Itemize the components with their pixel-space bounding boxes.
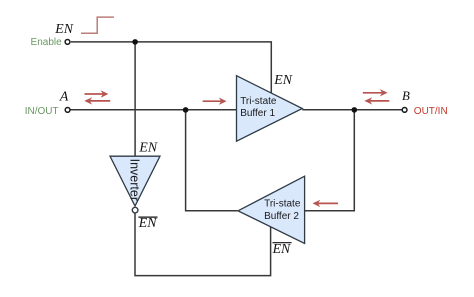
wire inverter output down, right, up to Buffer2 enable pin [135, 213, 271, 275]
label EN-bar (buffer 2 enable) [272, 241, 292, 256]
svg-text:Buffer 2: Buffer 2 [264, 211, 299, 222]
junction Enable/inverter branch [132, 39, 138, 45]
terminal A (IN/OUT) [65, 108, 70, 113]
terminal Enable [65, 40, 70, 45]
svg-text:EN: EN [138, 139, 157, 154]
inverter U3 [110, 156, 160, 206]
terminal B (OUT/IN) [402, 108, 407, 113]
wire Buffer1 output to B [302, 109, 402, 111]
svg-text:Buffer 1: Buffer 1 [240, 108, 275, 119]
wire Enable branch down to inverter input [134, 42, 136, 156]
arrow left (into Buffer2) [313, 200, 339, 207]
signal step waveform [81, 17, 114, 33]
label EN-bar (inverter output) [138, 215, 158, 230]
wire node B branch down and left to Buffer2 input [305, 110, 355, 211]
wire A to Buffer1 input [70, 109, 237, 111]
svg-text:EN: EN [273, 72, 292, 87]
arrow right (into Buffer1) [203, 98, 227, 105]
arrow left (B pair) [364, 97, 389, 104]
tri-state buffer U2 [238, 176, 305, 243]
svg-text:EN: EN [54, 21, 73, 36]
label Tri-state Buffer 1 [240, 96, 277, 119]
label Tri-state Buffer 2 [264, 198, 301, 222]
svg-text:B: B [402, 89, 410, 103]
inverter output bubble [132, 207, 138, 213]
svg-text:IN/OUT: IN/OUT [25, 106, 59, 117]
svg-text:OUT/IN: OUT/IN [414, 106, 448, 117]
arrow right (B pair) [363, 89, 388, 96]
junction A/Buffer2-output branch [183, 107, 189, 113]
junction B/Buffer2-input branch [352, 107, 358, 113]
arrow right (A pair) [85, 90, 109, 97]
svg-text:Tri-state: Tri-state [264, 198, 301, 209]
svg-text:Enable: Enable [31, 37, 63, 48]
wire Enable horizontal then down to Buffer1 enable pin [71, 42, 271, 93]
wire node A branch down and right to Buffer2 output [186, 110, 238, 211]
arrow left (A pair) [84, 97, 110, 104]
svg-text:Inverter: Inverter [128, 159, 142, 201]
svg-text:A: A [59, 89, 69, 104]
svg-text:Tri-state: Tri-state [240, 96, 277, 107]
tri-state buffer U1 [237, 76, 303, 142]
